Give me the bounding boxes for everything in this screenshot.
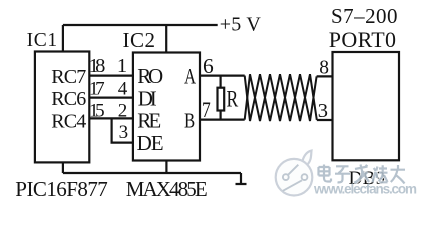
wire pin3 to DB9	[317, 119, 334, 121]
svg-text:IC1: IC1	[27, 30, 57, 51]
svg-text:A: A	[184, 64, 197, 89]
svg-text:3: 3	[318, 100, 328, 122]
svg-text:+5 V: +5 V	[220, 14, 262, 36]
DB9 connector box	[333, 52, 400, 160]
wire +5V top rail	[63, 24, 218, 26]
wire ground rail	[63, 172, 241, 174]
svg-text:4: 4	[118, 78, 128, 99]
wire jog to pin3 DE	[112, 118, 133, 142]
wire node A pin6	[200, 74, 245, 76]
resistor R body	[218, 88, 225, 111]
resistor R leads	[220, 76, 222, 120]
wire pin17 to pin4 (RC6-DI)	[89, 96, 133, 98]
svg-text:MAX485E: MAX485E	[126, 177, 208, 201]
svg-text:B: B	[184, 110, 195, 133]
svg-text:S7–200: S7–200	[331, 4, 398, 28]
svg-text:17: 17	[89, 78, 105, 99]
IC2 MAX485E box	[133, 53, 200, 161]
svg-text:DI: DI	[138, 87, 157, 111]
wire node B pin7	[200, 118, 245, 120]
ground	[236, 173, 247, 184]
svg-text:8: 8	[319, 57, 329, 78]
svg-text:PIC16F877: PIC16F877	[15, 177, 108, 201]
wire pin18 to pin1 (RC7-RO)	[89, 74, 133, 76]
svg-text:15: 15	[89, 100, 105, 121]
svg-text:RO: RO	[137, 64, 163, 88]
svg-text:R: R	[227, 87, 239, 112]
wire pin15 to pin2 (RC4-RE)	[89, 117, 133, 119]
svg-text:RC6: RC6	[51, 88, 86, 110]
wire +5V drop to IC2	[165, 25, 167, 53]
svg-text:1: 1	[117, 55, 127, 77]
svg-text:IC2: IC2	[123, 28, 156, 52]
wire +5V drop to IC1	[62, 25, 64, 52]
watermark: elecfans logo and text (decorative)	[276, 151, 417, 197]
wire pin8 to DB9	[317, 75, 334, 77]
svg-text:RC7: RC7	[51, 66, 86, 88]
svg-text:6: 6	[203, 54, 214, 78]
svg-text:7: 7	[202, 98, 211, 123]
twisted pair cable	[245, 74, 317, 121]
svg-text:RC4: RC4	[51, 111, 86, 133]
svg-text:DE: DE	[137, 131, 164, 155]
svg-text:RE: RE	[137, 108, 161, 132]
IC1 PIC16F877 box	[35, 52, 89, 163]
svg-text:18: 18	[89, 55, 106, 77]
svg-text:3: 3	[119, 122, 129, 143]
wire IC1 ground stub	[62, 162, 64, 173]
svg-text:www.elecfans.com: www.elecfans.com	[313, 182, 417, 197]
svg-text:PORT0: PORT0	[329, 27, 396, 52]
svg-text:2: 2	[118, 100, 128, 121]
wire IC2 ground stub	[165, 161, 167, 174]
